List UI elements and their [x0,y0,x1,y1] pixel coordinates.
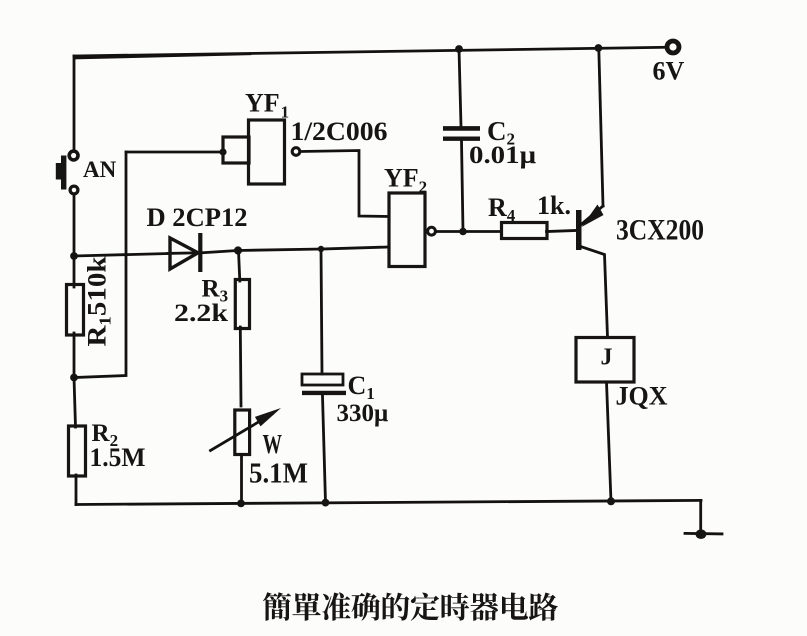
label 6V [653,57,685,86]
label 5.1M [249,459,308,490]
title 简单准确的定时器电路 [263,592,558,620]
wire top +6V rail [74,47,666,58]
label AN [83,157,117,182]
potentiometer W arrow [211,408,282,451]
svg-text:D 2CP12: D 2CP12 [147,203,248,232]
node C junction (diode/R3) [234,246,242,254]
node A junction [70,252,78,260]
label R4 [488,193,516,225]
wire C2 to YF2 output node [462,141,464,232]
wire YF2 output to R4 [436,230,502,233]
label R2 [92,420,119,450]
label R3 [202,276,229,306]
svg-text:5.1M: 5.1M [249,459,308,490]
wire node D to YF2 lower input [321,247,389,249]
resistor R2 [69,426,86,476]
junction W/bottom rail [237,500,245,508]
wire left rail to switch [73,56,76,150]
junction C1/bottom rail [322,499,330,507]
diode D 2CP12 [170,233,200,272]
wire R1 to node B [73,333,76,378]
wire node B to R2 [74,378,76,428]
label D 2CP12 [147,203,248,232]
wire C1 to bottom rail [323,396,326,503]
svg-text:1/2C006: 1/2C006 [291,117,388,146]
gate YF2 body [389,193,425,267]
wire R4 to transistor base [547,231,576,232]
junction top rail / C2 branch [455,45,463,53]
capacitor C1 (electrolytic) [302,374,346,393]
wire node C to node D [238,249,321,251]
wire diode cathode to node C [202,251,238,253]
junction at YF1 input [219,148,226,155]
relay J coil box [576,338,634,383]
junction YF2 out / C2 [459,228,467,236]
wire bottom rail to ground [699,501,702,533]
wire W to bottom rail [240,455,243,504]
label YF2 [384,164,427,197]
label J [601,345,613,371]
label 1/2C006 [291,117,388,146]
svg-text:W: W [263,429,283,459]
label W [263,429,283,459]
junction relay/bottom rail [607,497,615,505]
node B junction [70,374,78,382]
svg-text:6V: 6V [653,57,685,86]
wire switch to node A [73,195,76,257]
label 1k [537,191,571,220]
gate YF2 output inversion circle [428,227,436,235]
label C1 [348,371,375,403]
wire bottom ground rail [76,500,701,504]
wire to YF1 input [126,151,223,154]
wire transistor emitter to top rail [599,49,603,207]
label JQX [616,382,668,411]
label 2.2k [174,300,228,327]
gate YF1 body [249,120,285,184]
power terminal 6V [667,41,679,53]
wire node B branch up to YF1 input [74,152,126,378]
pushbutton switch AN [56,151,78,194]
resistor R4 [502,223,548,239]
capacitor C2 [443,128,480,138]
svg-text:1k.: 1k. [537,191,571,220]
svg-text:0.01μ: 0.01μ [469,142,536,169]
svg-text:AN: AN [83,157,117,182]
gate YF1 input square [223,137,249,163]
wire node D down to C1 [321,249,322,374]
wire top rail to C2 [459,49,461,126]
label YF1 [245,89,289,122]
potentiometer W body [235,410,250,455]
junction top rail / emitter [595,44,603,52]
gate YF1 output inversion circle [292,148,300,156]
transistor Q1 3CX200 [576,205,608,338]
wire relay to bottom rail [607,382,612,502]
node D junction (C1 branch) [318,246,324,252]
svg-text:R1510k: R1510k [83,256,115,347]
wire YF1 output to YF2 upper input [301,151,389,217]
label C2 [487,116,515,149]
svg-text:J: J [601,345,613,371]
svg-text:3CX200: 3CX200 [616,214,704,247]
resistor R1 [67,285,84,336]
resistor R3 [235,280,249,329]
label 1.5M [90,443,146,472]
wire node A to R1 [73,256,76,287]
label R1 510k (rotated) [83,256,115,347]
wire R3 to potentiometer W [239,327,242,406]
wire R2 to bottom rail [75,475,78,505]
ground symbol [685,529,722,539]
svg-text:330μ: 330μ [337,400,389,427]
svg-text:JQX: JQX [616,382,668,411]
label 330u [337,400,389,427]
svg-text:2.2k: 2.2k [174,300,228,327]
label 3CX200 [616,214,704,247]
label 0.01u [469,142,536,169]
svg-text:1.5M: 1.5M [90,443,146,472]
wire node C down to R3 [239,251,240,282]
wire node A to diode anode [74,253,200,256]
